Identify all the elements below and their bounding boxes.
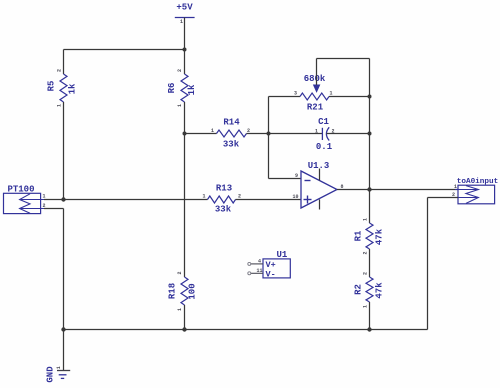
- svg-text:1: 1: [454, 184, 457, 190]
- svg-text:1: 1: [177, 308, 183, 311]
- power +5V symbol: [175, 3, 195, 26]
- svg-text:1: 1: [363, 305, 369, 308]
- wire middle vertical down to R18: [184, 134, 186, 278]
- svg-text:2: 2: [57, 69, 63, 72]
- svg-text:V+: V+: [266, 260, 276, 270]
- svg-text:1: 1: [177, 104, 183, 107]
- wire top rail left: [64, 49, 185, 51]
- wire R13 right to op-amp: [236, 199, 302, 201]
- svg-text:1: 1: [203, 194, 206, 200]
- wire PT100 pin1 to node: [44, 199, 64, 201]
- svg-text:11: 11: [257, 268, 263, 274]
- svg-text:R1: R1: [354, 230, 364, 241]
- node output junction: [367, 187, 371, 191]
- wire R14 right to C1: [247, 133, 323, 135]
- node junction top: [183, 48, 187, 52]
- svg-text:toA0input: toA0input: [457, 178, 499, 186]
- svg-text:1: 1: [211, 128, 214, 134]
- svg-text:2: 2: [363, 272, 369, 275]
- wire R6 top lead: [184, 50, 186, 75]
- wire R5 top lead: [63, 50, 65, 75]
- svg-text:3: 3: [294, 91, 297, 97]
- svg-text:R6: R6: [167, 83, 177, 94]
- svg-text:4: 4: [258, 259, 261, 265]
- node C1 right junction: [368, 132, 372, 136]
- svg-text:GND: GND: [46, 366, 56, 383]
- svg-text:33k: 33k: [223, 140, 240, 150]
- wire ground rail: [64, 329, 428, 331]
- resistor R5: [47, 69, 78, 107]
- svg-text:R21: R21: [307, 103, 324, 113]
- svg-text:1k: 1k: [68, 83, 78, 94]
- wire PT100 pin2 right: [44, 208, 64, 210]
- wire inverting input horizontal: [269, 178, 302, 180]
- svg-text:100: 100: [188, 283, 198, 299]
- wire R6 bottom to R14 node: [184, 102, 186, 134]
- wire R5 bottom to PT100 node: [63, 102, 65, 200]
- wire op-amp output: [337, 189, 458, 191]
- op-amp U1.3: [293, 161, 344, 210]
- node R6/R14/R18 junction: [183, 132, 187, 136]
- wire pot wiper up: [316, 59, 318, 85]
- resistor R6: [167, 69, 197, 107]
- svg-text:33k: 33k: [215, 205, 232, 215]
- resistor R13: [203, 184, 242, 215]
- svg-text:1: 1: [180, 19, 183, 25]
- svg-text:R14: R14: [223, 118, 240, 128]
- svg-text:1: 1: [315, 129, 318, 135]
- node ground rail left junction: [61, 327, 65, 331]
- svg-text:2: 2: [238, 194, 241, 200]
- svg-text:47k: 47k: [375, 282, 385, 299]
- svg-text:2: 2: [177, 271, 183, 274]
- svg-text:+5V: +5V: [176, 3, 193, 13]
- svg-text:0.1: 0.1: [316, 142, 333, 152]
- resistor R18: [168, 271, 198, 311]
- node pot right junction: [368, 95, 372, 99]
- node R2 rail junction: [367, 327, 371, 331]
- resistor R2: [354, 272, 385, 308]
- wire right vertical top: [369, 59, 371, 134]
- wire pot left lead: [269, 96, 301, 98]
- svg-text:1: 1: [43, 194, 46, 200]
- wire toA0input pin2 down: [427, 198, 429, 330]
- svg-text:R13: R13: [216, 184, 232, 194]
- svg-text:R18: R18: [168, 283, 178, 299]
- connector toA0input: [452, 178, 498, 204]
- wire +5V down to junction: [184, 18, 186, 50]
- wire toA0input pin2 left: [428, 197, 459, 199]
- wire wiper top horizontal: [317, 58, 370, 60]
- node feedback-left junction: [267, 132, 271, 136]
- svg-text:V-: V-: [266, 269, 276, 279]
- wire GND drop: [63, 330, 65, 371]
- wire C1 right lead: [327, 133, 370, 135]
- wire R14 left lead: [185, 133, 217, 135]
- power part U1: [248, 250, 290, 279]
- potentiometer R21: [294, 74, 333, 113]
- svg-text:U1.3: U1.3: [308, 161, 330, 171]
- wire feedback left vertical: [268, 97, 270, 179]
- connector PT100: [4, 184, 46, 213]
- wire right vertical C1 to output: [369, 134, 371, 190]
- wire PT100 pin2 down to rail: [63, 209, 65, 330]
- wire R18 bottom to rail: [184, 305, 186, 330]
- svg-text:10: 10: [293, 194, 299, 200]
- svg-text:1k: 1k: [187, 84, 197, 95]
- svg-text:47k: 47k: [375, 228, 385, 245]
- svg-text:U1: U1: [277, 250, 288, 260]
- svg-text:680k: 680k: [304, 74, 326, 84]
- wire R1 bottom to R2 top: [369, 249, 371, 277]
- ground GND symbol: [46, 366, 71, 383]
- svg-text:1: 1: [330, 91, 333, 97]
- wire R2 bottom to rail: [369, 302, 371, 330]
- svg-text:9: 9: [295, 173, 298, 179]
- svg-text:1: 1: [57, 104, 63, 107]
- svg-text:1: 1: [56, 366, 62, 369]
- resistor R14: [211, 118, 250, 150]
- wire pot right lead: [329, 96, 370, 98]
- svg-text:R5: R5: [47, 81, 57, 92]
- wire R1 top lead: [369, 190, 371, 224]
- svg-text:PT100: PT100: [7, 184, 34, 194]
- svg-text:2: 2: [177, 69, 183, 72]
- svg-text:C1: C1: [318, 117, 329, 127]
- svg-text:1: 1: [363, 218, 369, 221]
- wire R13 left lead: [64, 199, 208, 201]
- svg-text:R2: R2: [354, 284, 364, 295]
- node R18 rail junction: [182, 327, 186, 331]
- node PT100 junction: [61, 197, 65, 201]
- resistor R1: [354, 218, 385, 255]
- capacitor C1: [315, 117, 335, 152]
- svg-text:2: 2: [363, 251, 369, 254]
